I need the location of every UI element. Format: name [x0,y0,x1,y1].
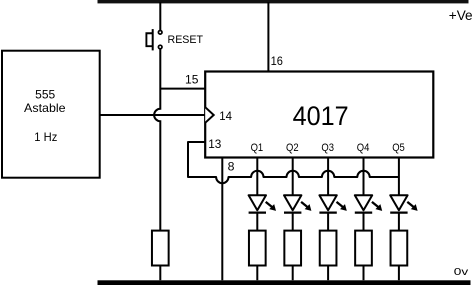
svg-text:Q5: Q5 [392,142,405,154]
4017 IC box U2 [205,72,433,158]
svg-text:13: 13 [208,137,221,151]
resistor R1 reset pull-down [152,231,169,266]
LED D1 [249,195,266,210]
svg-text:0v: 0v [454,266,469,278]
wire R3 to 0V rail [292,266,294,281]
wire switch to pin 15 node, hops over clock wire, down to R1 [154,49,160,230]
svg-text:16: 16 [271,54,283,68]
wire Q4 to LED4 [363,158,365,197]
resistor R4 [320,231,337,266]
wire +Ve rail to reset switch [159,2,161,30]
svg-text:Q1: Q1 [251,142,264,154]
LED D3 [319,195,336,210]
svg-text:RESET: RESET [168,34,204,46]
svg-text:4017: 4017 [293,101,349,131]
wire LED3 to R4 [327,213,329,231]
+Ve supply rail [98,0,469,3]
wire node to pin 15 [160,88,204,90]
resistor R3 [284,231,301,266]
LED chains [249,158,418,281]
wire LED5 to R6 [398,213,400,231]
resistor R5 [355,231,372,266]
wire pin 13 to Q5 output (hops over pin 8 and Q1-Q4 wires) [188,142,399,183]
svg-text:15: 15 [185,72,199,86]
svg-text:Q2: Q2 [286,142,299,154]
resistor R2 [249,231,266,266]
svg-text:+Ve: +Ve [449,8,473,23]
wire R5 to 0V rail [363,266,365,281]
svg-text:14: 14 [219,109,232,123]
LED D5 [390,195,407,210]
555 astable block U1 [2,51,100,178]
wire LED2 to R3 [292,213,294,231]
wire pin 8 to 0V rail [221,158,223,281]
svg-text:555: 555 [35,88,55,102]
wire Q2 to LED2 [292,158,294,197]
svg-text:Astable: Astable [24,101,66,115]
svg-text:Q3: Q3 [321,142,334,154]
push switch S1 RESET : plunger bar [152,29,154,50]
wire +Ve rail to pin 16 [267,2,269,71]
wire Q5 to LED5 [398,158,400,197]
clock input symbol on pin 14 [205,107,214,123]
push switch S1 RESET : top contact [158,31,162,35]
wire 555 output to 4017 clock pin 14 [100,114,205,116]
wire LED1 to R2 [256,213,258,231]
wire R1 to 0V rail [159,266,161,281]
wire R4 to 0V rail [327,266,329,281]
push switch S1 RESET : bottom contact [158,45,162,49]
LED D2 [284,195,301,210]
resistor R6 [391,231,408,266]
svg-text:Q4: Q4 [357,142,370,154]
svg-text:8: 8 [228,159,235,173]
wire R6 to 0V rail [398,266,400,281]
LED D4 [355,195,372,210]
svg-text:1 Hz: 1 Hz [34,130,57,144]
0V supply rail [98,280,471,285]
wire Q3 to LED3 [327,158,329,197]
wire Q1 to LED1 [256,158,258,197]
wire R2 to 0V rail [256,266,258,281]
wire LED4 to R5 [363,213,365,231]
push switch S1 RESET : button cap bracket [146,33,152,46]
